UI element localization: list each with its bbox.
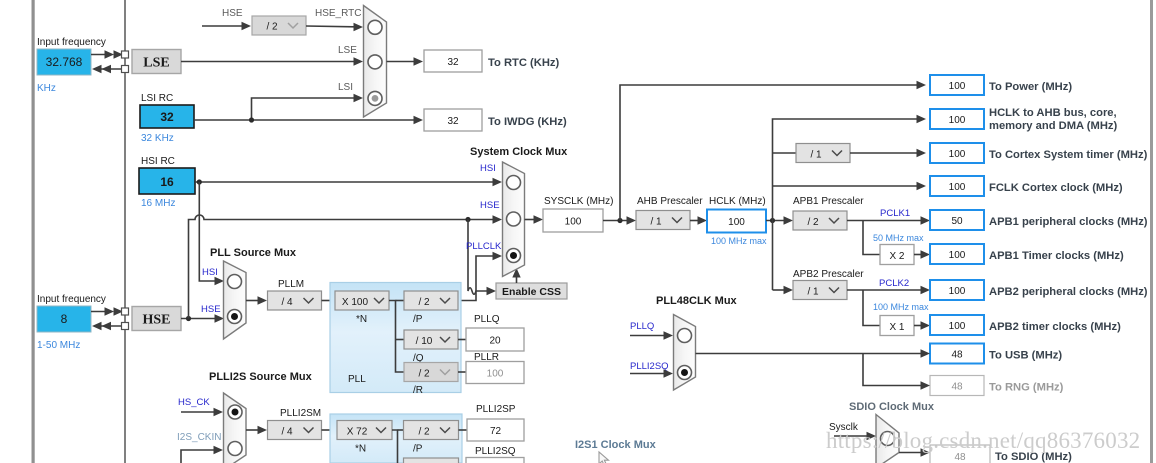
APB2 timer value box [930,315,984,335]
Cortex timer value box [930,143,984,163]
svg-text:KHz: KHz [37,83,56,94]
svg-text:APB1 Timer clocks (MHz): APB1 Timer clocks (MHz) [989,250,1124,262]
wire PLL48 to USB [696,349,931,357]
svg-text:PLLI2SP: PLLI2SP [476,404,516,415]
wire HSE_RTC to RTC mux [306,23,363,31]
svg-text:APB2 timer clocks (MHz): APB2 timer clocks (MHz) [989,321,1121,333]
svg-text:To USB (MHz): To USB (MHz) [989,350,1062,362]
svg-text:100: 100 [949,115,966,126]
wire LSE in arrows [91,50,123,58]
svg-text:100 MHz max: 100 MHz max [873,302,929,312]
svg-text:HCLK to AHB bus, core,: HCLK to AHB bus, core, [989,107,1117,119]
HCLK value box [707,210,766,233]
LSE input frequency box 32.768 [37,49,91,75]
svg-text:FCLK Cortex clock (MHz): FCLK Cortex clock (MHz) [989,182,1123,194]
svg-text:X 1: X 1 [889,322,904,333]
svg-text:PLLCLK: PLLCLK [466,241,502,252]
svg-text:Enable CSS: Enable CSS [502,286,561,298]
svg-text:100: 100 [949,250,966,261]
FCLK value box [930,176,984,196]
svg-text:/ 1: / 1 [650,217,662,228]
PLL48 clock mux [674,315,696,391]
wire LSI to RTC mux [252,94,364,120]
svg-text:/P: /P [413,314,423,325]
svg-text:SYSCLK (MHz): SYSCLK (MHz) [544,196,613,207]
wire PLLI2SQ to PLL48 mux [630,369,673,377]
wire branch to RNG [863,354,930,390]
svg-text:*N: *N [355,444,366,455]
svg-text:PLLI2SM: PLLI2SM [280,408,321,419]
wire HS_CK to PLLI2S mux [181,408,223,416]
wire HCLK to AHB bus arrow [917,115,927,123]
pin square LSE bottom [122,66,129,73]
wire PLLN to /P [396,300,405,302]
svg-text:PLL Source Mux: PLL Source Mux [210,247,297,259]
svg-text:/P: /P [413,444,423,455]
wire HCLK vertical rail [773,119,918,290]
svg-text:100: 100 [949,321,966,332]
wire cortex divider to box [850,149,926,157]
wire I2S_CKIN to PLLI2S mux [181,446,223,463]
svg-text:https://blog.csdn.net/qq863760: https://blog.csdn.net/qq86376032 [826,428,1140,453]
svg-text:HSI RC: HSI RC [141,156,175,167]
svg-text:100: 100 [565,217,582,228]
wire SDIO mux to SDIO box [899,448,930,456]
svg-text:PLL: PLL [348,374,366,385]
svg-text:100: 100 [949,182,966,193]
PLLI2SP divider dropdown /2 [404,421,459,440]
wire LSE to RTC mux [181,57,363,65]
APB2 prescaler dropdown /1 [793,281,847,300]
oscillator block HSE [132,307,181,331]
junction HCLK [770,218,775,223]
svg-text:HSE: HSE [480,200,500,211]
X 2 multiplier box [880,245,914,265]
svg-text:8: 8 [61,312,68,326]
svg-text:LSI: LSI [338,82,353,93]
svg-text:To IWDG (KHz): To IWDG (KHz) [488,116,567,128]
junction HSI [197,179,202,184]
PLLI2SN multiplier dropdown X72 [337,421,392,440]
HSE input frequency box 8 [37,306,91,332]
svg-text:PLLQ: PLLQ [630,321,654,332]
wire PLLM to PLLN [322,300,336,302]
wire PLL mux to PLLM [246,296,267,304]
svg-text:HSE: HSE [201,304,221,315]
To RTC value box [424,50,482,72]
wire PLLN to /Q [396,339,405,341]
svg-text:32 KHz: 32 KHz [141,133,174,144]
svg-text:/ 2: / 2 [418,297,430,308]
wire HCLK rail to APB2 [773,286,794,294]
svg-text:100: 100 [949,81,966,92]
svg-text:100: 100 [949,286,966,297]
svg-text:HSE: HSE [222,8,243,19]
svg-text:HS_CK: HS_CK [178,397,210,408]
svg-text:1-50 MHz: 1-50 MHz [37,340,80,351]
wire HSI to system mux [195,178,502,186]
Enable CSS button [496,283,567,299]
PLLP divider dropdown /2 [404,291,458,310]
svg-text:LSE: LSE [143,56,169,71]
svg-text:APB2 Prescaler: APB2 Prescaler [793,269,864,280]
wire SYSCLK to power [620,81,926,221]
wire APB2 branch to X1 [863,290,880,326]
To Power value box [930,75,984,95]
svg-text:Input frequency: Input frequency [37,37,106,48]
wire PLLCLK to system mux [458,252,502,301]
To SDIO value box [930,445,990,463]
junction HSE css [465,217,470,222]
svg-text:72: 72 [490,426,502,437]
APB1 peripheral value box [930,210,984,230]
svg-text:PCLK2: PCLK2 [879,278,909,289]
PLLQ divider dropdown /10 [404,330,458,349]
APB1 prescaler dropdown /2 [793,211,847,230]
svg-text:/ 2: / 2 [418,369,430,380]
wire APB2 to peripheral box [847,286,930,294]
mouse cursor [599,452,609,463]
svg-text:16: 16 [160,175,174,189]
wire Enable CSS to mux [512,268,520,283]
wire X2 to timer box [914,250,930,258]
system clock mux [503,162,525,277]
junction SYSCLK [617,218,622,223]
svg-text:PLLI2SQ: PLLI2SQ [475,446,516,457]
wire APB1 to peripheral box [847,216,930,224]
svg-text:LSE: LSE [338,45,357,56]
svg-text:PLLI2S Source Mux: PLLI2S Source Mux [209,371,313,383]
svg-text:HSI: HSI [202,267,218,278]
svg-text:HCLK (MHz): HCLK (MHz) [709,196,766,207]
svg-text:I2S_CKIN: I2S_CKIN [177,432,221,443]
wire HSE to PLL mux [181,314,224,322]
PLL source mux [224,261,247,339]
svg-text:50 MHz max: 50 MHz max [873,233,924,243]
svg-text:HSE: HSE [142,313,170,328]
svg-text:To RTC (KHz): To RTC (KHz) [488,57,560,69]
svg-text:32: 32 [447,116,459,127]
svg-text:32: 32 [447,57,459,68]
svg-text:48: 48 [951,382,963,393]
PLLR value box 100 (disabled) [466,362,524,384]
svg-text:48: 48 [954,452,966,463]
To IWDG value box [424,109,482,131]
wire SYSCLK to AHB prescaler [603,216,636,224]
svg-text:HSE_RTC: HSE_RTC [315,8,362,19]
svg-text:/R: /R [413,385,423,396]
PLLI2SQ value box (cut) [466,458,524,463]
svg-text:48: 48 [951,350,963,361]
divider HSE_RTC /2 (disabled) [252,16,306,35]
pin square HSE bottom [122,323,129,330]
svg-text:SDIO Clock Mux: SDIO Clock Mux [849,401,935,413]
HCLK to AHB value box [930,109,984,129]
svg-text:LSI RC: LSI RC [141,93,173,104]
wire HCLK to APB1 [766,216,793,224]
PLLI2S block background [330,414,462,463]
svg-text:*N: *N [356,314,367,325]
cortex prescaler dropdown /1 [796,144,850,163]
svg-text:32.768: 32.768 [46,55,83,69]
svg-text:50: 50 [951,216,963,227]
wire HSE down to Enable CSS [468,220,496,296]
PLLI2S source mux [224,393,247,463]
APB1 timer value box [930,244,984,264]
wire Sysclk to SDIO mux [834,432,876,440]
junction HSE [186,316,191,321]
svg-text:PCLK1: PCLK1 [880,208,910,219]
To USB value box [930,344,984,364]
junction LSI [249,117,254,122]
svg-text:/ 1: / 1 [810,150,822,161]
wire PLLI2SN to /P [398,429,404,431]
svg-text:/ 10: / 10 [416,336,433,347]
wire HSI down to PLL mux [199,182,224,285]
svg-text:X 100: X 100 [342,297,369,308]
wire LSI to IWDG [194,116,423,124]
PLLM divider dropdown /4 [268,291,322,310]
wire /Q to PLLQ box [458,339,466,341]
svg-text:APB2 peripheral clocks (MHz): APB2 peripheral clocks (MHz) [989,286,1148,298]
svg-text:/ 2: / 2 [266,22,278,33]
svg-text:APB1 Prescaler: APB1 Prescaler [793,196,864,207]
wire PLLN to dividers [389,301,404,373]
wire APB1 branch to X2 [863,221,880,255]
LSI RC box 32 [140,105,194,128]
wire HSE out arrows [92,322,122,330]
PLLQ value box 20 [466,328,524,351]
svg-text:X 2: X 2 [889,251,904,262]
svg-text:To Power (MHz): To Power (MHz) [989,81,1072,93]
RTC clock mux [364,6,387,118]
svg-text:PLLI2SQ: PLLI2SQ [630,361,669,372]
wire HSE in arrows [91,307,123,315]
svg-text:System Clock Mux: System Clock Mux [470,146,568,158]
wire AHB to HCLK [690,216,707,224]
wire PLLQ to PLL48 mux [630,331,673,339]
oscillator block LSE [132,50,181,74]
svg-text:HSI: HSI [480,163,496,174]
svg-text:32: 32 [160,110,174,124]
svg-text:/ 2: / 2 [807,217,819,228]
svg-text:APB1 peripheral clocks (MHz): APB1 peripheral clocks (MHz) [989,216,1148,228]
wire /P to PLLI2SP box [459,429,468,431]
PLLN multiplier dropdown X100 [335,291,389,310]
svg-text:/ 1: / 1 [807,287,819,298]
wire HCLK to cortex divider [773,152,797,154]
HSI RC box 16 [139,168,195,194]
AHB prescaler dropdown /1 [636,211,690,230]
svg-text:To Cortex System timer (MHz): To Cortex System timer (MHz) [989,149,1148,161]
SDIO clock mux [876,415,899,463]
svg-text:100 MHz max: 100 MHz max [711,236,767,246]
svg-text:100: 100 [949,149,966,160]
svg-text:16 MHz: 16 MHz [141,198,175,209]
PLLR divider dropdown /2 (disabled) [404,363,458,382]
To RNG value box [930,376,984,396]
svg-text:20: 20 [489,336,501,347]
wire PLLI2S mux to PLLI2SM [246,426,267,434]
svg-text:PLLQ: PLLQ [474,314,500,325]
svg-text:/ 2: / 2 [418,427,430,438]
PLL block background [330,283,461,393]
SYSCLK value box [543,209,603,232]
svg-text:To RNG (MHz): To RNG (MHz) [989,382,1064,394]
wire LSE out arrows [92,65,122,73]
wire system mux to SYSCLK [525,215,544,223]
wire FCLK [773,182,927,190]
wire /R to PLLR box [458,371,466,373]
wire PLLI2SN to dividers [392,430,398,463]
svg-text:/ 4: / 4 [281,297,293,308]
svg-text:X 72: X 72 [347,427,368,438]
pin square LSE top [122,51,129,58]
PLLI2SM divider dropdown /4 [268,421,322,440]
wire HSE up and to system mux with hop [189,215,503,319]
svg-text:100: 100 [487,369,504,380]
wire PLLI2SM to PLLI2SN [322,429,338,431]
wire HSE to /2 divider [202,22,251,30]
svg-text:AHB Prescaler: AHB Prescaler [637,196,703,207]
svg-text:/ 4: / 4 [281,427,293,438]
wire RTC mux to RTC box [387,57,424,65]
svg-text:Input frequency: Input frequency [37,294,106,305]
pin square HSE top [122,308,129,315]
APB2 peripheral value box [930,280,984,300]
svg-text:memory and DMA (MHz): memory and DMA (MHz) [989,120,1118,132]
PLLI2SQ divider dropdown (cut) [404,458,459,463]
X 1 multiplier box [880,316,914,336]
HCLK to AHB label [989,107,1118,132]
svg-text:I2S1 Clock Mux: I2S1 Clock Mux [575,439,657,451]
wire X1 to timer box [914,321,930,329]
svg-text:PLLM: PLLM [278,279,304,290]
PLLI2SP value box 72 [467,419,524,441]
svg-text:100: 100 [728,217,745,228]
svg-text:PLL48CLK Mux: PLL48CLK Mux [656,295,738,307]
